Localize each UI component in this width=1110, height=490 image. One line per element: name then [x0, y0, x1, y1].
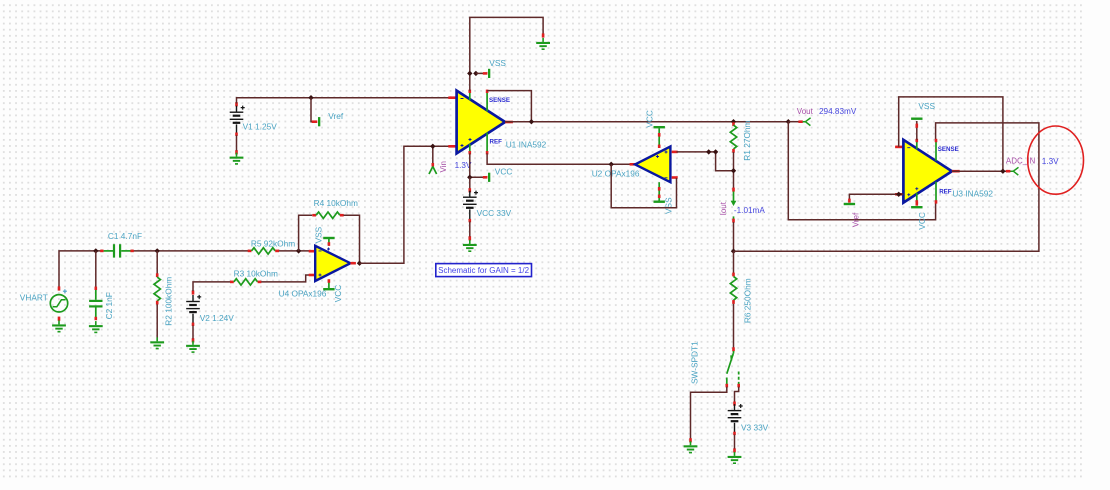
wire R4 feedback loop left	[299, 215, 313, 251]
battery V3 33V	[728, 402, 743, 453]
switch SW-SPDT1	[726, 347, 741, 387]
svg-text:VCC: VCC	[333, 285, 343, 303]
op-amp U3 INA592	[895, 139, 960, 204]
wire Vin probe stub	[432, 146, 434, 164]
wire U3 VSS lead	[916, 121, 918, 140]
node junction U3 output	[1000, 169, 1005, 174]
node junction SENSE loop at output	[529, 119, 534, 124]
wire R4 right to U4 output	[344, 215, 360, 263]
svg-text:V1 1.25V: V1 1.25V	[243, 122, 278, 132]
svg-text:VCC: VCC	[645, 110, 655, 128]
svg-text:VSS: VSS	[313, 226, 323, 243]
svg-text:Schematic for GAIN = 1/2: Schematic for GAIN = 1/2	[438, 266, 529, 275]
ground below V2	[186, 341, 200, 353]
svg-text:R6 250Ohm: R6 250Ohm	[742, 278, 752, 323]
svg-text:VSS: VSS	[918, 101, 935, 111]
capacitor C2	[89, 287, 102, 321]
svg-text:R2 100kOhm: R2 100kOhm	[164, 277, 174, 326]
node junction U2 +in a	[706, 149, 711, 154]
source VHART	[50, 286, 67, 320]
node junction R1 bottom kelvin	[731, 168, 736, 173]
svg-text:1.3V: 1.3V	[1042, 157, 1059, 166]
node junction R4 tap	[296, 248, 301, 253]
node junction U4 output	[357, 261, 362, 266]
wire R5 right to U4 -in	[279, 250, 310, 252]
svg-text:VCC: VCC	[917, 212, 927, 230]
wire C1 right to R5 left	[133, 250, 249, 252]
wire Vout down to U3 REF	[788, 122, 935, 220]
terminal VCC below U4	[323, 288, 334, 290]
wire R2 bottom to ground	[156, 304, 158, 341]
wire U1 Vplus up and over to ground	[470, 17, 543, 90]
terminal ADC_IN	[1006, 167, 1019, 175]
terminal VCC U1	[483, 173, 491, 182]
svg-text:U3 INA592: U3 INA592	[952, 188, 993, 198]
svg-text:R4 10kOhm: R4 10kOhm	[314, 198, 358, 208]
terminal VSS above U4	[323, 237, 334, 239]
battery V1 1.25V	[230, 102, 245, 154]
svg-text:C2 1nF: C2 1nF	[104, 292, 114, 319]
wire VSS stub U1	[476, 72, 484, 74]
wire VCC battery to ground	[469, 222, 471, 237]
terminal Vout	[788, 118, 810, 126]
op-amp U4 OPAx196	[309, 239, 356, 288]
svg-text:Vin: Vin	[439, 161, 448, 172]
ground below V3	[728, 452, 742, 464]
wire V2 top to R3 left	[193, 282, 230, 291]
terminal Vref at U3	[844, 199, 855, 206]
node junction U3 +in	[896, 192, 901, 197]
node junction VSS stub b	[473, 71, 478, 76]
wire U4 output to U1 +in	[360, 146, 451, 263]
resistor R5 92kOhm	[248, 248, 279, 254]
op-amp U1 INA592	[448, 90, 513, 155]
node junction R2 tap	[155, 248, 160, 253]
wire R1 bottom to Iout junction	[733, 152, 735, 189]
battery V2 1.24V	[186, 290, 201, 342]
op-amp U2 OPAx196	[630, 128, 678, 200]
node junction R1 top	[731, 119, 736, 124]
resistor R6 250Ohm	[730, 273, 736, 304]
resistor R2 100kOhm	[154, 273, 160, 304]
node junction VCC stub	[467, 175, 472, 180]
wire rail down to R6	[733, 251, 735, 273]
svg-text:U4 OPAx196: U4 OPAx196	[279, 288, 327, 298]
svg-text:Vref: Vref	[328, 111, 344, 121]
node junction Vout tap	[786, 119, 791, 124]
node junction U2 +in b	[713, 149, 718, 154]
svg-text:R1 27Ohm: R1 27Ohm	[742, 120, 752, 160]
wire VHART top to C1 left	[59, 251, 102, 289]
wire Vref branch	[311, 98, 313, 122]
svg-text:VSS: VSS	[663, 197, 673, 214]
ground below R2	[150, 337, 164, 349]
wire R3 right to U4 +in	[261, 275, 310, 282]
probe Iout current arrow	[731, 188, 737, 223]
wire R2 top lead	[156, 251, 158, 274]
svg-text:SW-SPDT1: SW-SPDT1	[690, 341, 700, 384]
svg-text:V3 33V: V3 33V	[741, 423, 769, 433]
svg-text:R5 92kOhm: R5 92kOhm	[251, 239, 295, 249]
wire switch pole to left ground	[691, 387, 727, 440]
wire V2 bottom to ground	[192, 326, 194, 339]
wire U3 feedback output to -in	[899, 97, 1011, 171]
terminal VSS U3	[911, 118, 922, 128]
wire VCC junction to battery	[469, 177, 471, 189]
terminal Vref	[312, 117, 321, 126]
node junction Vref tap	[308, 95, 313, 100]
terminal VSS U1	[483, 69, 491, 78]
svg-text:VHART: VHART	[20, 293, 48, 303]
wire Iout row to U3 SENSE loop	[734, 123, 1039, 251]
node junction Vin tap	[430, 144, 435, 149]
resistor R4 10kOhm	[312, 212, 343, 218]
terminal VCC above U2	[654, 126, 665, 128]
terminal VCC U3	[911, 202, 922, 208]
wire U1 REF to U2 output	[487, 153, 630, 164]
svg-text:R3 10kOhm: R3 10kOhm	[234, 268, 278, 278]
terminal VSS below U2	[654, 201, 665, 203]
wire V1 bottom to ground	[236, 135, 238, 150]
wire U1 SENSE feedback loop	[487, 91, 531, 122]
wire R6 bottom to switch	[733, 304, 735, 348]
svg-text:Vref: Vref	[851, 212, 860, 227]
svg-text:ADC_IN: ADC_IN	[1006, 157, 1036, 166]
wire V1 top to U1 -in	[237, 98, 451, 104]
svg-text:294.83mV: 294.83mV	[819, 107, 857, 116]
svg-text:Iout: Iout	[719, 201, 728, 215]
svg-text:-1.01mA: -1.01mA	[734, 206, 765, 215]
svg-text:U1 INA592: U1 INA592	[506, 140, 547, 150]
wire U2 feedback loop	[611, 164, 676, 208]
svg-text:Vout: Vout	[797, 107, 814, 116]
annotation red ellipse	[1028, 126, 1084, 194]
svg-text:VCC 33V: VCC 33V	[477, 208, 512, 218]
svg-text:SENSE: SENSE	[938, 146, 959, 153]
ground below C2	[89, 321, 103, 333]
wire U1 output row	[505, 121, 788, 123]
svg-text:SENSE: SENSE	[489, 97, 510, 104]
ground below VHART	[52, 320, 66, 332]
ground top right of U1	[542, 33, 545, 37]
resistor R1 27Ohm	[730, 122, 736, 152]
node junction VSS stub a	[467, 71, 472, 76]
wire U3 +in to Vref terminal	[849, 194, 903, 199]
svg-text:REF: REF	[939, 189, 952, 196]
wire C2 branch	[95, 251, 97, 287]
wire switch throw to V3	[735, 387, 739, 403]
svg-text:VCC: VCC	[495, 167, 513, 177]
ground below switch left	[689, 438, 692, 442]
wire U1 VCC stub	[470, 153, 484, 177]
resistor R3 10kOhm	[230, 279, 261, 285]
svg-text:VSS: VSS	[489, 58, 506, 68]
node junction U2 feedback at output	[609, 162, 614, 167]
ground below VCC battery	[463, 240, 477, 252]
svg-text:U2 OPAx196: U2 OPAx196	[592, 168, 640, 178]
battery VCC 33V	[463, 188, 478, 240]
wire Iout probe to bottom rail	[733, 222, 735, 251]
probe Vin voltage pin	[429, 163, 437, 174]
wire U2 +in to R1 bottom	[677, 152, 734, 171]
node junction Iout rail	[731, 249, 736, 254]
svg-text:C1 4.7nF: C1 4.7nF	[108, 231, 142, 241]
capacitor C1	[100, 244, 134, 257]
svg-text:V2 1.24V: V2 1.24V	[200, 313, 235, 323]
wire V3 bottom to ground	[734, 435, 736, 449]
annotation box Schematic for GAIN = 1/2	[436, 264, 532, 277]
node junction C2 tap	[93, 248, 98, 253]
ground below V1	[230, 153, 244, 165]
svg-text:REF: REF	[490, 139, 503, 146]
